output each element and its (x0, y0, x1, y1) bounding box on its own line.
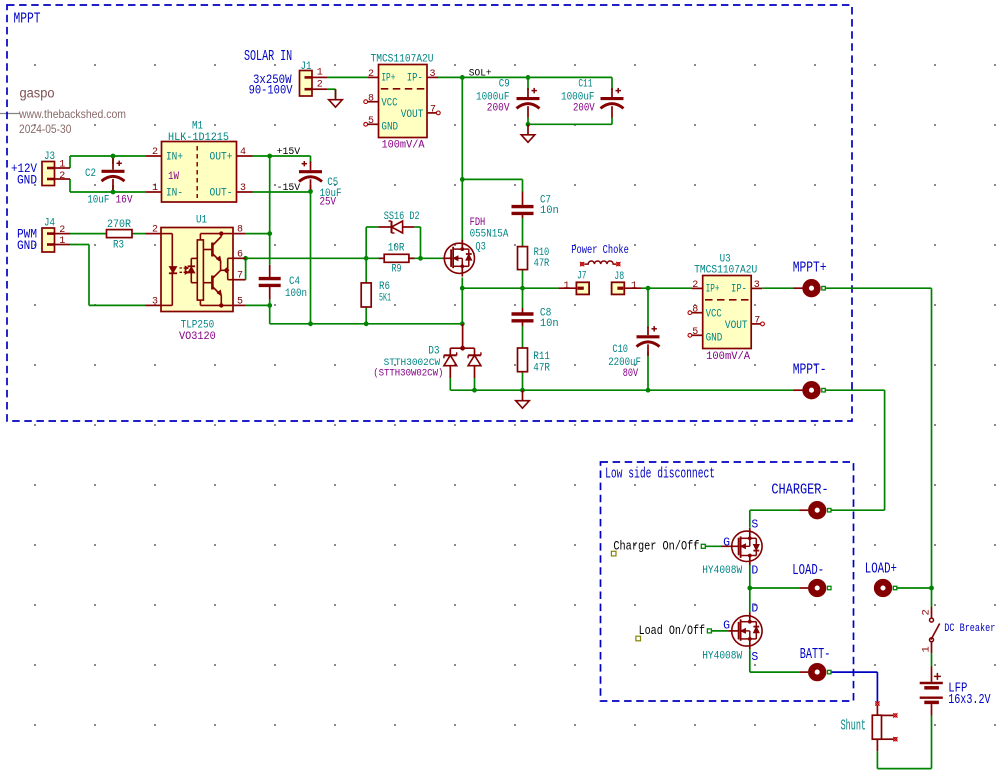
svg-text:1W: 1W (168, 171, 179, 183)
svg-text:5: 5 (692, 327, 698, 338)
svg-text:5: 5 (368, 116, 374, 127)
svg-text:C11: C11 (578, 78, 592, 90)
svg-text:200V: 200V (487, 103, 510, 115)
svg-text:+15V: +15V (277, 146, 301, 158)
svg-text:90-100V: 90-100V (249, 83, 293, 98)
svg-text:STTH3002CW: STTH3002CW (384, 358, 441, 369)
svg-text:OUT-: OUT- (210, 188, 233, 200)
svg-text:1: 1 (152, 183, 158, 194)
svg-text:100mV/A: 100mV/A (382, 140, 425, 152)
svg-text:GND: GND (17, 173, 37, 188)
svg-text:2: 2 (59, 225, 65, 236)
svg-text:1: 1 (317, 68, 323, 79)
svg-text:7: 7 (237, 271, 243, 282)
svg-text:Q3: Q3 (475, 241, 486, 253)
svg-text:G: G (723, 536, 730, 549)
svg-text:IN+: IN+ (166, 152, 183, 164)
svg-text:VCC: VCC (706, 309, 722, 321)
svg-text:5K1: 5K1 (379, 292, 391, 304)
svg-text:1: 1 (631, 280, 637, 292)
svg-text:2: 2 (152, 147, 158, 158)
svg-text:Load On/Off: Load On/Off (639, 623, 706, 638)
svg-text:J7: J7 (577, 271, 587, 283)
svg-text:M1: M1 (192, 121, 203, 133)
svg-text:G: G (723, 619, 730, 632)
svg-text:1: 1 (563, 280, 569, 292)
svg-text:1: 1 (59, 159, 65, 170)
svg-text:D3: D3 (428, 345, 439, 357)
svg-text:Shunt: Shunt (841, 717, 866, 734)
svg-text:CHARGER-: CHARGER- (771, 481, 828, 498)
svg-text:FDH: FDH (470, 217, 486, 229)
svg-text:6: 6 (237, 249, 243, 260)
svg-text:100mV/A: 100mV/A (706, 351, 750, 363)
svg-text:BATT-: BATT- (800, 646, 831, 663)
svg-text:2: 2 (920, 609, 932, 615)
svg-text:Low side disconnect: Low side disconnect (605, 466, 715, 483)
svg-text:DC Breaker: DC Breaker (944, 623, 995, 635)
svg-text:10n: 10n (540, 318, 559, 330)
svg-text:C10: C10 (612, 344, 628, 356)
svg-text:2: 2 (317, 80, 323, 91)
svg-text:-15V: -15V (277, 182, 301, 194)
svg-text:SOL+: SOL+ (469, 67, 492, 79)
svg-text:C2: C2 (85, 168, 96, 180)
svg-text:R9: R9 (392, 263, 402, 275)
svg-text:47R: 47R (534, 258, 550, 270)
svg-text:10n: 10n (540, 205, 559, 217)
svg-text:S: S (751, 518, 758, 531)
svg-text:IN-: IN- (166, 188, 183, 200)
svg-text:270R: 270R (107, 219, 131, 231)
svg-text:TMCS1107A2U: TMCS1107A2U (694, 264, 757, 276)
svg-text:GND: GND (381, 122, 398, 134)
svg-text:80V: 80V (623, 368, 639, 380)
svg-text:2024-05-30: 2024-05-30 (19, 122, 72, 136)
svg-text:3: 3 (240, 183, 246, 194)
svg-text:D: D (751, 565, 758, 578)
svg-text:TLP250: TLP250 (181, 320, 215, 332)
svg-text:HLK-1D1215: HLK-1D1215 (168, 132, 229, 144)
svg-text:R3: R3 (113, 240, 124, 252)
svg-text:8: 8 (692, 304, 698, 315)
svg-text:4: 4 (240, 147, 246, 158)
svg-text:IP+: IP+ (381, 73, 395, 85)
svg-text:7: 7 (430, 105, 436, 116)
svg-text:S: S (751, 651, 758, 664)
svg-text:1: 1 (59, 236, 65, 247)
svg-text:2: 2 (59, 171, 65, 182)
svg-text:SOLAR IN: SOLAR IN (244, 49, 292, 65)
svg-text:MPPT-: MPPT- (793, 361, 827, 378)
svg-text:TMCS1107A2U: TMCS1107A2U (371, 53, 434, 65)
svg-text:7: 7 (754, 316, 760, 327)
svg-text:gaspo: gaspo (20, 86, 55, 101)
svg-text:VOUT: VOUT (725, 320, 748, 332)
svg-text:OUT+: OUT+ (210, 152, 233, 164)
svg-text:MPPT: MPPT (14, 12, 41, 28)
svg-text:J4: J4 (44, 218, 55, 230)
svg-text:MPPT+: MPPT+ (793, 259, 827, 276)
svg-text:U1: U1 (196, 215, 207, 227)
svg-text:47R: 47R (533, 362, 550, 374)
svg-text:3: 3 (152, 296, 158, 307)
svg-text:J1: J1 (301, 61, 312, 73)
svg-text:LOAD+: LOAD+ (865, 561, 897, 578)
svg-text:16x3.2V: 16x3.2V (948, 692, 991, 708)
svg-text:1: 1 (920, 646, 932, 652)
svg-text:3: 3 (429, 69, 435, 80)
svg-text:8: 8 (237, 225, 243, 236)
svg-text:C4: C4 (289, 276, 300, 288)
svg-text:Power Choke: Power Choke (571, 243, 629, 257)
svg-text:J8: J8 (614, 271, 624, 283)
svg-text:200V: 200V (573, 103, 595, 115)
svg-text:055N15A: 055N15A (470, 229, 509, 241)
svg-text:VCC: VCC (381, 98, 397, 110)
svg-text:GND: GND (17, 238, 37, 253)
svg-text:VOUT: VOUT (401, 109, 424, 121)
svg-text:HY4008W: HY4008W (702, 565, 742, 577)
svg-text:HY4008W: HY4008W (702, 651, 742, 663)
svg-text:2: 2 (368, 69, 374, 80)
svg-text:16V: 16V (116, 195, 133, 207)
svg-text:(STTH30W02CW): (STTH30W02CW) (373, 368, 443, 380)
svg-text:25V: 25V (320, 197, 337, 209)
svg-text:C9: C9 (499, 78, 510, 90)
svg-text:2: 2 (152, 225, 158, 236)
svg-text:VO3120: VO3120 (179, 331, 216, 343)
svg-text:2: 2 (692, 280, 698, 291)
svg-text:3: 3 (754, 280, 760, 291)
svg-text:Charger On/Off: Charger On/Off (613, 539, 699, 554)
svg-text:D: D (751, 603, 758, 616)
svg-text:10R: 10R (388, 242, 405, 254)
svg-text:www.thebackshed.com: www.thebackshed.com (18, 107, 126, 121)
svg-text:J3: J3 (44, 151, 55, 163)
svg-text:IP-: IP- (407, 73, 423, 85)
svg-text:SS16 D2: SS16 D2 (384, 211, 420, 223)
svg-text:IP-: IP- (731, 284, 747, 296)
svg-text:10uF: 10uF (87, 195, 109, 207)
svg-text:100n: 100n (285, 288, 307, 300)
svg-text:8: 8 (368, 93, 374, 104)
svg-text:5: 5 (237, 296, 243, 307)
svg-text:GND: GND (706, 333, 723, 345)
svg-text:IP+: IP+ (706, 284, 720, 296)
svg-text:LOAD-: LOAD- (792, 562, 824, 579)
